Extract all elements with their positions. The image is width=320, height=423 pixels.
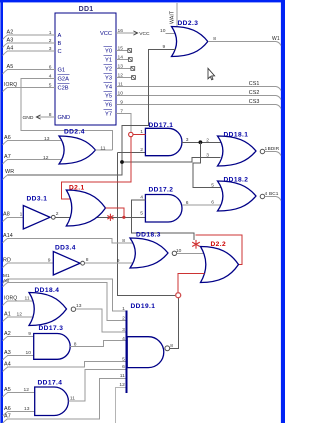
wire red D2.1 output [106, 208, 124, 217]
svg-text:5: 5 [122, 357, 125, 363]
sheet border right [281, 0, 285, 423]
svg-text:G1: G1 [58, 68, 66, 74]
junction dot at WR branch [120, 160, 124, 164]
wire red DD19.1 output to D2.2 input 2 [178, 274, 205, 292]
wire DD1 Y5 to CS2 [116, 95, 276, 97]
wire IORQ to DD1 pin 5 [3, 87, 8, 91]
wire red ring to DD17.1 pin 1 [133, 134, 145, 136]
svg-text:9: 9 [28, 331, 31, 337]
bus entry BDIR [276, 152, 281, 156]
svg-text:9: 9 [48, 258, 51, 264]
wire DD19.1 output riser [170, 298, 179, 348]
IC DD1 pin numbers [49, 28, 124, 118]
svg-text:DD17.4: DD17.4 [38, 380, 63, 387]
svg-text:11: 11 [70, 395, 75, 401]
svg-text:13: 13 [76, 303, 82, 309]
bus entry BC1 [276, 197, 281, 201]
svg-text:DD2.3: DD2.3 [178, 20, 199, 27]
wire DD2.4 output nub [96, 149, 113, 151]
wire DD3.4 output to DD18.3 pin 9 [85, 262, 134, 264]
wire DD1 Y6 to CS3 [116, 104, 276, 106]
NAND gate DD19.1 body [127, 337, 164, 368]
svg-text:2: 2 [206, 137, 209, 143]
AND gate DD17.1 body [145, 128, 182, 155]
error marker X at D2.2 input [195, 240, 197, 249]
svg-text:A2: A2 [4, 331, 11, 337]
OR gate DD2.3 body [172, 27, 208, 57]
wire A1 to DD18.4 pin 12 [3, 317, 8, 321]
wire red net from ring to D2.1 input 1 [62, 137, 131, 199]
svg-text:DD3.4: DD3.4 [55, 244, 76, 251]
wire A2 to DD1 pin 1 [3, 35, 8, 39]
svg-text:12: 12 [43, 155, 49, 161]
wire DD17.2 pin 4 dangling [132, 200, 194, 240]
svg-text:Y4: Y4 [105, 85, 112, 91]
junction dot red on DD17.2 pin5 wire [122, 216, 125, 219]
wire DD1 Y1 stub [116, 59, 128, 61]
wire DD3.1 output to DD17.2 pin 5 [55, 216, 145, 218]
svg-text:9: 9 [117, 258, 120, 264]
svg-text:WR: WR [5, 169, 14, 175]
svg-text:13: 13 [24, 406, 30, 412]
svg-text:12: 12 [24, 387, 30, 393]
svg-text:DD1: DD1 [79, 6, 94, 13]
NAND gate DD19.1 pin numbers [119, 306, 125, 388]
svg-text:6: 6 [211, 199, 214, 205]
NAND gate DD19.1 input bar [125, 311, 127, 394]
sheet border top [0, 0, 285, 2]
wire M1 to DD19.1 pin 1 [3, 279, 8, 283]
svg-text:3: 3 [122, 327, 125, 333]
svg-text:8: 8 [86, 257, 89, 263]
wire DD18.4 output to DD19.1 pin 3 [76, 309, 126, 332]
svg-text:2: 2 [56, 211, 59, 217]
wire stub DD2.3 pin 10 [166, 33, 179, 35]
inverter DD3.1 output bubble [51, 215, 55, 219]
svg-text:DD18.3: DD18.3 [136, 231, 161, 238]
svg-text:DD19.1: DD19.1 [131, 303, 156, 310]
svg-text:BDIR: BDIR [268, 146, 280, 151]
no-connect marker on Y2 [131, 67, 135, 71]
svg-text:8: 8 [122, 238, 125, 244]
wire A5 to DD1 pin 6 G1 [3, 70, 8, 74]
svg-text:Y6: Y6 [105, 103, 112, 109]
junction ring red at DD19.1 output [176, 293, 181, 298]
NOR gate DD18.3 body [130, 238, 168, 268]
wire A4 to DD19.1 pin 5 [3, 367, 8, 371]
svg-text:VCC: VCC [100, 31, 112, 37]
wire A5 to DD17.4 pin 12 [3, 393, 8, 397]
wire A3 to DD1 pin 2 [3, 43, 8, 47]
svg-text:12: 12 [119, 382, 125, 388]
svg-text:RD: RD [3, 257, 11, 263]
NOR gate DD18.2 output bubble [260, 194, 264, 198]
wire long vertical to DD19.1 output ring [118, 153, 176, 296]
svg-text:10: 10 [26, 350, 32, 356]
wire A6 to DD2.4 pin 13 [3, 141, 8, 145]
wire DD1 Y7 pin 7 to junction ring [116, 114, 131, 133]
OR gate DD2.4 body [59, 136, 96, 164]
NAND gate DD19.1 output bubble [165, 346, 170, 351]
svg-text:4: 4 [122, 336, 125, 342]
svg-text:DD2.4: DD2.4 [64, 128, 85, 135]
wire A8 to DD3.1 input [3, 217, 8, 221]
OR gate D2.2 body [201, 247, 239, 283]
wire DD1 Y0 stub [116, 50, 128, 52]
svg-text:4: 4 [264, 191, 267, 197]
OR gate D2.1 body [66, 190, 105, 226]
IC DD1 (3-to-8 decoder) body [55, 13, 116, 125]
svg-text:2: 2 [140, 147, 143, 153]
svg-text:A: A [58, 33, 62, 39]
wire DD18.1 output to BDIR [265, 151, 277, 153]
svg-text:6: 6 [122, 364, 125, 370]
svg-text:1: 1 [20, 212, 23, 218]
NOR gate DD18.2 body [218, 181, 257, 211]
wire from bottom edge to DD19.1 pin 12 [116, 388, 126, 423]
junction dot on DD17.1 output [199, 140, 203, 144]
svg-text:C2B: C2B [58, 85, 69, 91]
wire DD1 Y3 stub [116, 77, 132, 79]
svg-text:11: 11 [25, 295, 30, 301]
svg-text:GND: GND [58, 115, 71, 121]
AND gate DD17.2 body [145, 195, 182, 223]
sheet border left [0, 0, 3, 423]
bus entry for WR [3, 175, 8, 179]
svg-text:13: 13 [44, 136, 50, 142]
no-connect marker on Y1 [128, 58, 132, 62]
wire DD17.4 output to DD19.1 pin 6 [68, 369, 126, 401]
svg-text:A3: A3 [4, 350, 11, 356]
svg-text:Y3: Y3 [105, 76, 112, 82]
NOR gate DD18.4 body [29, 293, 67, 326]
wire DD17.1 output to DD18.1 pin 2 [182, 141, 221, 143]
power symbol GND at DD1 pin 8 [36, 116, 55, 118]
no-connect marker on Y0 [128, 49, 132, 53]
svg-text:DD3.1: DD3.1 [27, 196, 48, 203]
NOR gate DD18.4 output bubble [71, 307, 75, 311]
svg-text:GND: GND [23, 115, 34, 121]
NOR gate DD18.1 body [218, 136, 257, 166]
wire A3 to DD17.3 pin 10 [3, 356, 8, 360]
svg-text:VCC: VCC [139, 31, 150, 37]
svg-text:DD17.3: DD17.3 [39, 325, 64, 332]
svg-text:12: 12 [17, 312, 23, 318]
svg-text:Y2: Y2 [105, 67, 112, 73]
svg-text:G2A: G2A [58, 76, 70, 82]
mouse cursor [208, 68, 215, 80]
NOR gate DD18.3 output bubble [172, 251, 176, 255]
svg-text:WAIT: WAIT [170, 10, 176, 24]
error marker X on DD3.1 output wire [109, 214, 111, 221]
NOR gate DD18.1 output bubble [260, 149, 264, 153]
svg-text:B: B [58, 41, 62, 47]
svg-text:DD17.2: DD17.2 [149, 186, 174, 193]
junction ring red at Y7/DD17.1 pin 1 [129, 132, 133, 136]
svg-text:1: 1 [122, 306, 125, 312]
wire DD2.3 pin 9 riser [7, 50, 176, 176]
wire DD17.3 output to DD19.1 pin 4 [70, 341, 126, 347]
wire A6 to DD17.4 pin 13 [3, 412, 8, 416]
inverter DD3.4 body [53, 252, 80, 276]
svg-text:CS1: CS1 [249, 81, 260, 87]
inverter DD3.4 output bubble [81, 261, 85, 265]
wire DD17.1 output branch to DD18.2 pin 5 [193, 142, 221, 187]
wire DD1 Y4 to CS1 [116, 86, 276, 88]
svg-text:2: 2 [122, 316, 125, 322]
svg-text:11: 11 [120, 373, 125, 379]
svg-text:10: 10 [160, 28, 166, 34]
svg-text:BC1: BC1 [269, 191, 279, 196]
wire A7 to DD19.1 pin 11 [3, 419, 8, 423]
svg-text:5: 5 [140, 211, 143, 217]
svg-text:CS2: CS2 [249, 90, 260, 96]
wire DD18.2 output to BC1 [265, 196, 277, 198]
AND gate DD17.3 body [34, 333, 70, 359]
wire A2 to DD17.3 pin 9 [3, 337, 8, 341]
wire IORQ to DD18.4 pin 11 [3, 301, 8, 305]
svg-text:5: 5 [211, 182, 214, 188]
wire DD1 Y2 stub [116, 68, 131, 70]
AND gate DD17.4 body [35, 387, 69, 416]
wire DD18.3 output to D2.2 input [177, 252, 205, 254]
wire DD17.2 output to DD18.2 pin 6 [182, 204, 221, 206]
wire A8 to DD19.1 pin 2 [3, 283, 8, 287]
svg-text:C: C [58, 49, 62, 55]
wire RD to DD3.4 input [3, 263, 8, 267]
wire DD17.1 pin 2 feed [118, 152, 146, 154]
no-connect marker on Y3 [132, 76, 136, 80]
svg-text:A5: A5 [4, 387, 11, 393]
IC DD1 port names [58, 31, 113, 121]
wire junction branch to DD18.1 pin 3 [122, 158, 221, 163]
wire A7 to DD2.4 pin 12 [3, 160, 8, 164]
svg-text:Y5: Y5 [105, 94, 112, 100]
svg-text:CS3: CS3 [249, 99, 260, 105]
svg-text:A6: A6 [4, 406, 11, 412]
svg-text:Y7: Y7 [105, 112, 112, 118]
svg-text:W1: W1 [272, 36, 280, 42]
wire A4 to DD1 pin 3 [3, 51, 8, 55]
power symbol VCC at DD1 pin 16 [116, 32, 137, 34]
svg-text:Y1: Y1 [105, 58, 112, 64]
wire DD1 pin 4 G2A to DD2.4 output (down-left-around) [21, 78, 113, 150]
wire red dangling to D2.2 area [195, 235, 241, 264]
svg-text:A8: A8 [3, 211, 10, 217]
wire DD2.3 output to W1 [208, 41, 276, 43]
svg-text:Y0: Y0 [105, 49, 112, 55]
inverter DD3.1 body [23, 206, 50, 230]
svg-text:3: 3 [206, 153, 209, 159]
wire A14 to DD18.3 pin 8 [3, 238, 8, 242]
wire WAIT from top border to DD2.3 pin 10 [176, 3, 177, 34]
